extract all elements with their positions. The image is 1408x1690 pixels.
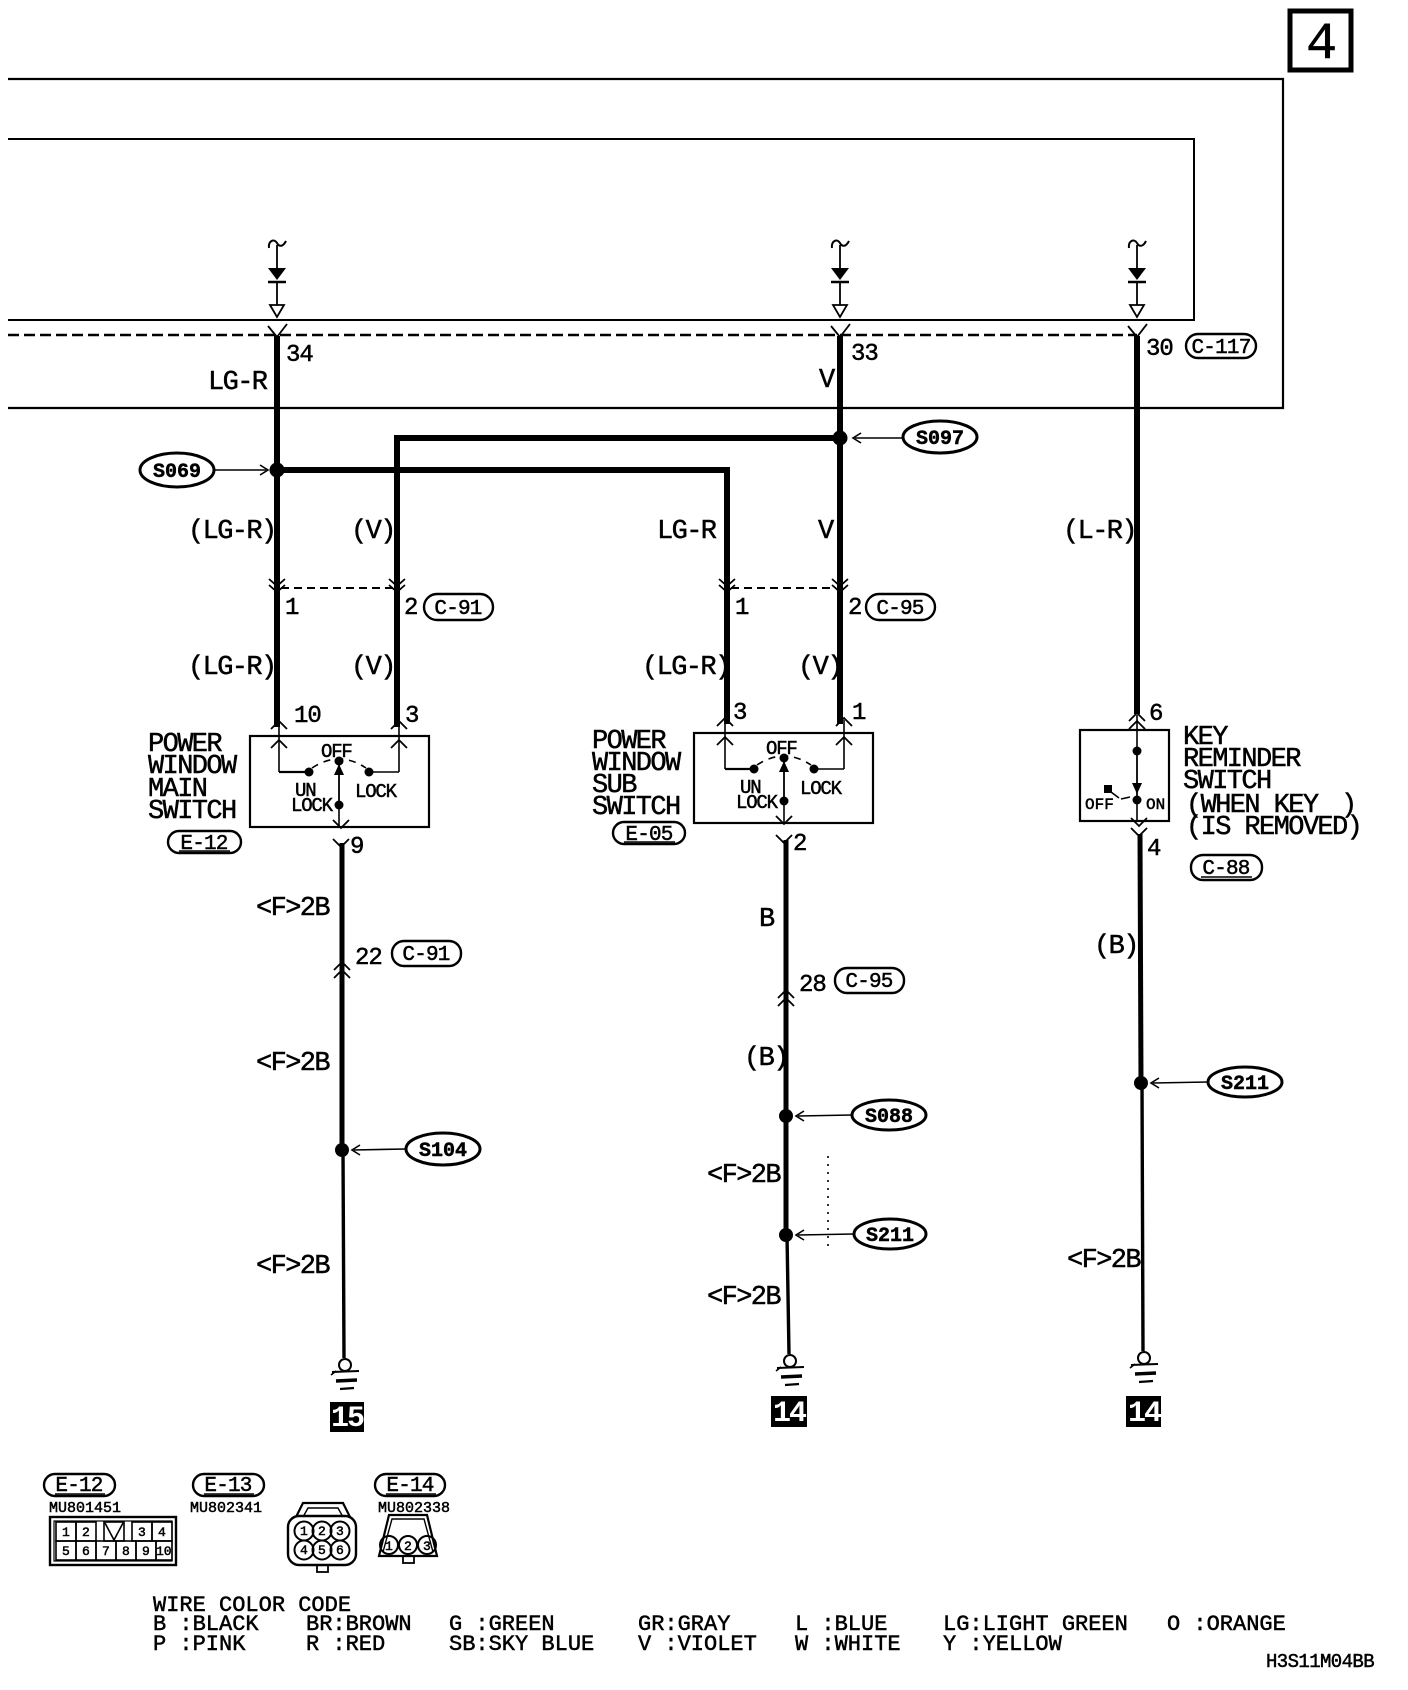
ground number box 15 bbox=[330, 1402, 364, 1436]
main switch pin 3 bbox=[391, 703, 418, 772]
wire (V) label above C-91 pin 2 bbox=[351, 517, 395, 547]
svg-text:(B): (B) bbox=[744, 1044, 788, 1074]
in-line connector C-95 dashed link bbox=[731, 587, 836, 589]
svg-text:OFF: OFF bbox=[321, 741, 352, 763]
connector E-12 face drawing bbox=[50, 1517, 176, 1565]
svg-text:1: 1 bbox=[385, 1539, 393, 1554]
svg-text:S211: S211 bbox=[1221, 1073, 1269, 1096]
svg-text:10: 10 bbox=[156, 1544, 172, 1559]
svg-text:W :WHITE: W :WHITE bbox=[795, 1632, 901, 1657]
wire 30: L-R vertical from C-117 to key reminder switch pin 6 bbox=[1134, 336, 1140, 714]
ETACS unit inner box (open left) bbox=[8, 139, 1194, 320]
splice S088 junction dot bbox=[779, 1109, 793, 1123]
svg-text:2: 2 bbox=[82, 1525, 90, 1540]
svg-text:(V): (V) bbox=[351, 517, 395, 547]
svg-text:28: 28 bbox=[799, 972, 826, 999]
C-95 pin 1 chevrons bbox=[719, 579, 749, 622]
connector label E-14 (footer) bbox=[375, 1474, 445, 1498]
pin 30 prong at C-117 bbox=[1128, 324, 1173, 363]
svg-text:C-95: C-95 bbox=[845, 971, 892, 994]
wire from S104 to ground bbox=[343, 1150, 344, 1358]
splice S211 junction dot (key switch run) bbox=[1134, 1076, 1148, 1090]
splice S104 label oval and arrow bbox=[352, 1133, 480, 1165]
svg-text:(LG-R): (LG-R) bbox=[188, 653, 276, 683]
wire LG-R label above C-95 pin 1 bbox=[657, 517, 717, 547]
svg-text:S211: S211 bbox=[866, 1225, 914, 1248]
svg-text:(LG-R): (LG-R) bbox=[188, 517, 276, 547]
svg-text:ON: ON bbox=[1146, 796, 1165, 814]
key reminder switch pin 6 bbox=[1129, 701, 1162, 751]
svg-text:<F>2B: <F>2B bbox=[256, 1049, 330, 1079]
svg-text:C-91: C-91 bbox=[402, 944, 449, 967]
dotted reference line near S211 bbox=[827, 1156, 829, 1250]
connector label E-05 (sub switch) bbox=[613, 822, 685, 847]
WHEN KEY IS REMOVED note bbox=[1186, 791, 1361, 843]
wire F 2B label (above ground 14 right) bbox=[1067, 1246, 1141, 1276]
wire F 2B label (above ground 14 middle) bbox=[707, 1283, 781, 1313]
svg-text:LOCK: LOCK bbox=[291, 795, 334, 817]
POWER WINDOW MAIN SWITCH label bbox=[148, 730, 238, 827]
svg-text:<F>2B: <F>2B bbox=[707, 1283, 781, 1313]
svg-text:1: 1 bbox=[300, 1524, 308, 1539]
pin 33 prong at C-117 bbox=[831, 324, 878, 368]
svg-text:2: 2 bbox=[318, 1524, 326, 1539]
in-line connector C-95 pin 28 chevrons bbox=[778, 972, 826, 1006]
svg-text:6: 6 bbox=[336, 1543, 344, 1558]
sub switch LOCK label bbox=[800, 778, 843, 800]
sub switch contacts bbox=[725, 754, 844, 824]
svg-text:<F>2B: <F>2B bbox=[256, 894, 330, 924]
main switch pin 10 bbox=[271, 703, 321, 772]
svg-text:SWITCH: SWITCH bbox=[592, 793, 680, 823]
svg-text:30: 30 bbox=[1146, 336, 1173, 363]
ground symbol (main switch) bbox=[331, 1359, 359, 1389]
svg-text:2: 2 bbox=[404, 595, 417, 622]
svg-text:SWITCH: SWITCH bbox=[148, 797, 236, 827]
svg-text:6: 6 bbox=[1149, 701, 1162, 728]
svg-text:2: 2 bbox=[404, 1539, 412, 1554]
svg-text:C-117: C-117 bbox=[1191, 337, 1250, 360]
splice S069 label oval and arrow bbox=[140, 453, 268, 487]
svg-text:1: 1 bbox=[62, 1525, 70, 1540]
svg-text:LOCK: LOCK bbox=[736, 792, 779, 814]
main switch UN LOCK label bbox=[291, 780, 334, 817]
main switch OFF label bbox=[321, 741, 352, 763]
ground number box 14 (right) bbox=[1126, 1396, 1162, 1431]
wire (LG-R) label above sub switch pin 3 bbox=[642, 653, 730, 683]
svg-text:LG-R: LG-R bbox=[657, 517, 717, 547]
svg-text:S097: S097 bbox=[916, 428, 964, 451]
pin 34 prong at C-117 bbox=[268, 324, 313, 369]
svg-text:14: 14 bbox=[1128, 1397, 1162, 1431]
wire F 2B label (above ground 15) bbox=[256, 1252, 330, 1282]
svg-text:3: 3 bbox=[336, 1524, 344, 1539]
splice S069 junction dot bbox=[270, 463, 285, 478]
wire V label above C-95 pin 2 bbox=[818, 517, 835, 547]
svg-text:4: 4 bbox=[1306, 15, 1337, 74]
wire (LG-R) label above main switch pin 10 bbox=[188, 653, 276, 683]
main switch pin 9 bbox=[333, 820, 363, 861]
connector label C-88 (key reminder switch) bbox=[1191, 855, 1262, 881]
ground number box 14 (middle) bbox=[771, 1396, 807, 1431]
wire branch from S069 to sub switch pin 3 bbox=[277, 467, 730, 724]
wire (L-R) label (pin 30 run) bbox=[1063, 517, 1136, 547]
wire (B) label (below C-95) bbox=[744, 1044, 788, 1074]
svg-text:5: 5 bbox=[318, 1543, 326, 1558]
splice S088 label oval and arrow bbox=[796, 1100, 926, 1130]
svg-text:9: 9 bbox=[142, 1544, 150, 1559]
power window sub switch box bbox=[694, 733, 873, 823]
svg-text:6: 6 bbox=[82, 1544, 90, 1559]
svg-text:V: V bbox=[818, 517, 835, 547]
connector label C-95 bbox=[866, 594, 935, 621]
svg-text:8: 8 bbox=[122, 1544, 130, 1559]
connector label C-117 bbox=[1186, 334, 1256, 360]
wire (LG-R) label above C-91 pin 1 bbox=[188, 517, 276, 547]
splice S211 label oval and arrow (key switch run) bbox=[1151, 1067, 1282, 1097]
svg-text:3: 3 bbox=[423, 1539, 431, 1554]
connector label C-91 bbox=[424, 594, 493, 621]
svg-text:Y :YELLOW: Y :YELLOW bbox=[943, 1632, 1063, 1657]
svg-text:1: 1 bbox=[852, 700, 866, 727]
svg-text:15: 15 bbox=[331, 1402, 364, 1436]
sub switch pin 3 bbox=[717, 700, 746, 769]
svg-text:10: 10 bbox=[294, 703, 321, 730]
svg-text:<F>2B: <F>2B bbox=[256, 1252, 330, 1282]
key reminder switch contacts bbox=[1104, 747, 1142, 822]
svg-text:S088: S088 bbox=[865, 1106, 913, 1129]
svg-text:B: B bbox=[759, 905, 775, 935]
wire (V) label above sub switch pin 1 bbox=[798, 653, 842, 683]
svg-text:4: 4 bbox=[300, 1543, 308, 1558]
svg-text:1: 1 bbox=[735, 595, 749, 622]
connector label E-12 (main switch) bbox=[168, 831, 241, 856]
splice S211 junction dot (sub switch run) bbox=[779, 1228, 793, 1242]
C-91 pin 1 chevrons bbox=[269, 579, 299, 622]
diode D3 (inside ETACS, above pin 30) bbox=[1128, 241, 1146, 317]
svg-text:3: 3 bbox=[405, 703, 418, 730]
svg-text:22: 22 bbox=[355, 945, 382, 972]
svg-text:9: 9 bbox=[350, 834, 363, 861]
page number box 4 bbox=[1290, 11, 1351, 74]
ground symbol (key reminder switch) bbox=[1130, 1352, 1158, 1382]
wire V label (pin 33) bbox=[819, 366, 836, 396]
connector label C-91 (pin 22) bbox=[392, 941, 461, 967]
wire from main switch pin 9 down to S104 bbox=[340, 843, 345, 1150]
sub switch OFF label bbox=[766, 738, 797, 760]
wire B label (sub switch pin 2) bbox=[759, 905, 775, 935]
svg-text:(L-R): (L-R) bbox=[1063, 517, 1136, 547]
svg-text:2: 2 bbox=[793, 831, 806, 858]
C-95 pin 2 chevrons bbox=[832, 579, 861, 622]
svg-text:1: 1 bbox=[285, 595, 299, 622]
svg-text:MU801451: MU801451 bbox=[49, 1500, 121, 1517]
wire LG-R label (pin 34) bbox=[208, 368, 268, 398]
connector E-13 face drawing bbox=[288, 1503, 356, 1572]
svg-text:<F>2B: <F>2B bbox=[707, 1161, 781, 1191]
in-line connector C-91 dashed link bbox=[281, 587, 393, 589]
POWER WINDOW SUB SWITCH label bbox=[592, 727, 682, 823]
svg-text:(B): (B) bbox=[1094, 932, 1138, 962]
svg-text:4: 4 bbox=[158, 1525, 166, 1540]
sub switch pin 2 bbox=[776, 816, 806, 858]
connector label E-13 (footer) bbox=[193, 1474, 264, 1498]
sub switch UN LOCK label bbox=[736, 777, 779, 814]
part number MU802341 bbox=[190, 1500, 262, 1517]
wire from key reminder switch pin 4 down to S211 bbox=[1140, 834, 1141, 1083]
svg-text:(IS REMOVED): (IS REMOVED) bbox=[1186, 813, 1361, 843]
svg-text:7: 7 bbox=[102, 1544, 110, 1559]
svg-text:<F>2B: <F>2B bbox=[1067, 1246, 1141, 1276]
svg-text:H3S11M04BB: H3S11M04BB bbox=[1266, 1651, 1374, 1673]
part number MU801451 bbox=[49, 1500, 121, 1517]
svg-text:3: 3 bbox=[138, 1525, 146, 1540]
svg-text:S069: S069 bbox=[153, 461, 201, 484]
svg-text:E-05: E-05 bbox=[625, 824, 672, 847]
connector C-117 dashed line bbox=[8, 334, 1137, 337]
svg-text:LOCK: LOCK bbox=[355, 781, 398, 803]
splice S097 label oval and arrow bbox=[853, 421, 977, 453]
ground symbol (sub switch) bbox=[776, 1355, 804, 1385]
wire 34: LG-R vertical from C-117 to main switch pin 10 bbox=[274, 336, 280, 727]
wire (V) label above main switch pin 3 bbox=[351, 653, 395, 683]
svg-text:P :PINK: P :PINK bbox=[153, 1632, 246, 1657]
drawing number H3S11M04BB bbox=[1266, 1651, 1374, 1673]
svg-text:(V): (V) bbox=[351, 653, 395, 683]
in-line connector C-91 pin 22 chevrons bbox=[334, 945, 382, 978]
connector label E-12 (footer) bbox=[44, 1474, 115, 1498]
svg-text:34: 34 bbox=[286, 342, 313, 369]
key reminder switch box bbox=[1080, 730, 1169, 821]
svg-text:14: 14 bbox=[773, 1397, 807, 1431]
svg-text:E-12: E-12 bbox=[180, 833, 227, 856]
part number MU802338 bbox=[378, 1500, 450, 1517]
connector E-14 face drawing bbox=[379, 1515, 437, 1563]
svg-text:LOCK: LOCK bbox=[800, 778, 843, 800]
KEY REMINDER SWITCH label bbox=[1183, 723, 1301, 797]
wire F 2B label (between S088 and S211) bbox=[707, 1161, 781, 1191]
ETACS unit outer box (open left) bbox=[8, 79, 1283, 408]
svg-text:V :VIOLET: V :VIOLET bbox=[638, 1632, 757, 1657]
splice S104 junction dot bbox=[335, 1143, 349, 1157]
wire F 2B label (below C-91) bbox=[256, 1049, 330, 1079]
key reminder switch pin 4 bbox=[1131, 818, 1161, 863]
main switch contacts bbox=[279, 757, 399, 828]
wire from sub switch pin 2 down to S211 bbox=[784, 840, 789, 1235]
key reminder switch OFF ON labels bbox=[1085, 796, 1165, 814]
splice S097 junction dot bbox=[833, 431, 848, 446]
diode D1 (inside ETACS, above pin 34) bbox=[268, 241, 286, 317]
svg-text:(V): (V) bbox=[798, 653, 842, 683]
sub switch pin 1 bbox=[836, 700, 866, 769]
wire color code legend bbox=[153, 1593, 1286, 1657]
svg-text:S104: S104 bbox=[419, 1140, 467, 1163]
splice S211 label oval and arrow (sub switch run) bbox=[796, 1219, 926, 1249]
svg-text:5: 5 bbox=[62, 1544, 70, 1559]
svg-text:MU802341: MU802341 bbox=[190, 1500, 262, 1517]
wire from S211 to ground (middle) bbox=[787, 1235, 789, 1354]
connector label C-95 (pin 28) bbox=[835, 968, 904, 994]
svg-text:33: 33 bbox=[851, 341, 878, 368]
svg-text:C-95: C-95 bbox=[876, 598, 923, 621]
svg-text:4: 4 bbox=[1147, 836, 1161, 863]
wire F 2B label (main switch pin 9) bbox=[256, 894, 330, 924]
wire branch from S097 to main switch pin 3 bbox=[394, 435, 840, 727]
svg-text:2: 2 bbox=[848, 595, 861, 622]
svg-text:OFF: OFF bbox=[766, 738, 797, 760]
svg-text:(LG-R): (LG-R) bbox=[642, 653, 730, 683]
svg-text:R :RED: R :RED bbox=[306, 1632, 385, 1657]
main switch LOCK label bbox=[355, 781, 398, 803]
C-91 pin 2 chevrons bbox=[389, 579, 417, 622]
svg-text:SB:SKY BLUE: SB:SKY BLUE bbox=[449, 1632, 594, 1657]
svg-text:C-91: C-91 bbox=[434, 598, 481, 621]
wire (B) label (key reminder switch) bbox=[1094, 932, 1138, 962]
svg-text:LG-R: LG-R bbox=[208, 368, 268, 398]
power window main switch box bbox=[250, 736, 429, 827]
wire 33: V vertical from C-117 to sub switch pin 1 bbox=[837, 336, 843, 724]
diode D2 (inside ETACS, above pin 33) bbox=[831, 241, 849, 317]
svg-text:O :ORANGE: O :ORANGE bbox=[1167, 1612, 1286, 1637]
svg-text:V: V bbox=[819, 366, 836, 396]
svg-text:OFF: OFF bbox=[1085, 796, 1114, 814]
svg-text:3: 3 bbox=[733, 700, 746, 727]
wire from S211 to ground (right) bbox=[1142, 1083, 1143, 1351]
